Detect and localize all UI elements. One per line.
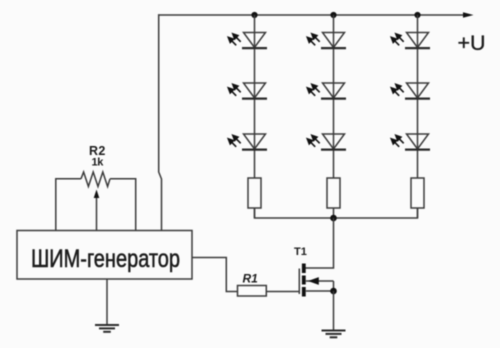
potentiometer R2 wiper arrow <box>94 190 100 232</box>
resistor column 3 <box>411 178 424 208</box>
wire: source to ground <box>333 291 335 330</box>
transistor T1 body arrow <box>306 277 334 285</box>
LED D3 <box>228 134 267 150</box>
node: bottom rail junction <box>330 215 337 222</box>
svg-text:ШИМ-генератор: ШИМ-генератор <box>31 245 180 273</box>
label PWM generator <box>31 245 180 273</box>
arrowhead +U rail <box>463 12 474 18</box>
LED D8 <box>391 83 430 99</box>
wire: R1 to gate <box>266 291 299 293</box>
LED D2 <box>228 83 267 99</box>
LED D5 <box>307 83 346 99</box>
wire: box output to R1 <box>192 258 238 292</box>
LED D1 <box>228 33 267 49</box>
node: rail junction column 2 <box>330 12 336 18</box>
wire: +U top rail <box>158 14 465 16</box>
node: rail junction column 1 <box>251 12 257 18</box>
wire: drain riser <box>305 218 334 268</box>
wire: LED column 3 vertical <box>417 15 419 218</box>
svg-text:T1: T1 <box>294 246 307 258</box>
svg-text:1k: 1k <box>92 156 105 168</box>
wire: LED column 1 vertical <box>254 15 256 218</box>
wire: source line <box>306 290 334 292</box>
LED D9 <box>391 134 430 150</box>
node: rail junction column 3 <box>414 12 420 18</box>
resistor R1 <box>238 286 267 297</box>
wire: left drop from rail to PWM box <box>159 14 162 231</box>
transistor T1 gate line <box>298 269 300 295</box>
transistor T1 channel segment body <box>302 276 306 285</box>
wire: box to ground <box>106 279 108 325</box>
wire: bottom rail joining columns <box>255 208 418 218</box>
LED D4 <box>307 33 346 49</box>
wire: body to source <box>333 281 335 291</box>
wire: pot right lead <box>110 179 136 231</box>
wire: pot left lead <box>56 179 81 231</box>
transistor T1 channel segment source <box>302 287 306 297</box>
LED D6 <box>307 134 346 150</box>
ground: under PWM box <box>95 325 119 332</box>
ground: under T1 source <box>322 331 346 338</box>
PWM generator box <box>17 231 192 280</box>
svg-text:R1: R1 <box>243 272 259 286</box>
LED D7 <box>391 33 430 49</box>
transistor T1 channel segment drain <box>302 264 306 274</box>
resistor column 1 <box>248 178 261 208</box>
wire: LED column 2 vertical <box>333 15 335 218</box>
potentiometer R2 zigzag <box>81 172 110 187</box>
node: source junction <box>330 288 337 295</box>
svg-text:+U: +U <box>458 31 486 55</box>
resistor column 2 <box>327 178 340 208</box>
